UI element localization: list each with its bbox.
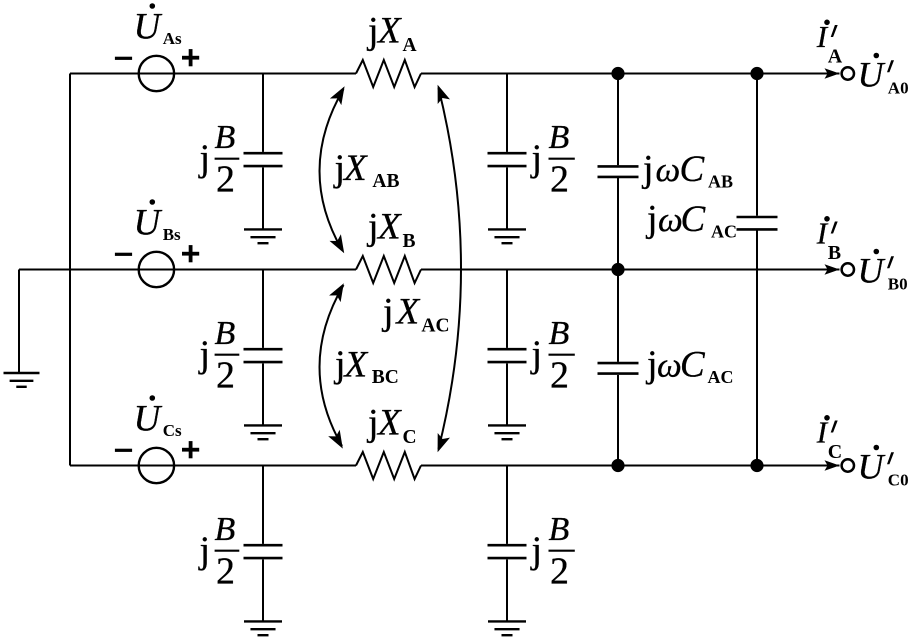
svg-text:B: B bbox=[215, 315, 236, 352]
svg-text:U: U bbox=[858, 55, 886, 95]
svg-text:U: U bbox=[858, 447, 886, 487]
svg-text:U: U bbox=[134, 7, 163, 48]
svg-text:C: C bbox=[680, 345, 706, 386]
svg-text:ω: ω bbox=[658, 200, 683, 239]
svg-text:2: 2 bbox=[216, 550, 235, 592]
svg-text:2: 2 bbox=[550, 158, 569, 200]
svg-text:j: j bbox=[366, 402, 379, 444]
svg-text:A: A bbox=[828, 46, 843, 68]
svg-text:2: 2 bbox=[216, 158, 235, 200]
svg-text:j: j bbox=[645, 344, 658, 386]
svg-text:X: X bbox=[343, 344, 369, 385]
svg-text:B: B bbox=[549, 511, 570, 548]
svg-text:X: X bbox=[376, 403, 402, 444]
svg-text:j: j bbox=[366, 10, 379, 52]
svg-text:As: As bbox=[163, 29, 182, 48]
svg-text:ω: ω bbox=[656, 150, 681, 189]
svg-text:AC: AC bbox=[421, 316, 449, 337]
svg-text:A: A bbox=[403, 35, 417, 56]
svg-text:C: C bbox=[681, 199, 707, 240]
svg-text:j: j bbox=[641, 148, 654, 190]
svg-text:j: j bbox=[381, 291, 394, 333]
svg-text:B0: B0 bbox=[888, 275, 908, 294]
svg-text:2: 2 bbox=[216, 354, 235, 396]
svg-text:j: j bbox=[198, 530, 211, 572]
svg-text:B: B bbox=[549, 315, 570, 352]
svg-text:X: X bbox=[376, 207, 402, 248]
svg-text:U: U bbox=[134, 203, 163, 244]
svg-text:B: B bbox=[549, 119, 570, 156]
svg-text:AC: AC bbox=[711, 222, 737, 242]
svg-text:j: j bbox=[530, 334, 543, 376]
svg-text:B: B bbox=[215, 511, 236, 548]
svg-text:B: B bbox=[828, 242, 841, 264]
svg-text:2: 2 bbox=[550, 354, 569, 396]
svg-text:ω: ω bbox=[657, 346, 682, 385]
svg-text:B: B bbox=[403, 231, 416, 252]
svg-text:X: X bbox=[376, 11, 402, 52]
svg-text:j: j bbox=[366, 206, 379, 248]
svg-text:AB: AB bbox=[372, 171, 399, 192]
svg-text:j: j bbox=[530, 530, 543, 572]
svg-text:X: X bbox=[342, 148, 368, 189]
svg-text:C0: C0 bbox=[888, 471, 909, 490]
svg-text:Cs: Cs bbox=[163, 421, 182, 440]
svg-text:X: X bbox=[395, 292, 421, 333]
svg-text:B: B bbox=[215, 119, 236, 156]
svg-text:j: j bbox=[198, 334, 211, 376]
svg-text:j: j bbox=[530, 138, 543, 180]
svg-text:A0: A0 bbox=[888, 79, 909, 98]
svg-text:Bs: Bs bbox=[163, 225, 181, 244]
svg-text:C: C bbox=[403, 427, 417, 448]
svg-text:j: j bbox=[198, 138, 211, 180]
svg-text:BC: BC bbox=[372, 367, 399, 388]
svg-text:C: C bbox=[828, 441, 842, 463]
svg-text:AC: AC bbox=[708, 367, 734, 387]
svg-text:C: C bbox=[680, 149, 706, 190]
svg-text:U: U bbox=[858, 251, 886, 291]
svg-text:j: j bbox=[645, 198, 658, 240]
svg-text:2: 2 bbox=[550, 550, 569, 592]
svg-text:U: U bbox=[134, 399, 163, 440]
svg-text:AB: AB bbox=[708, 171, 733, 191]
